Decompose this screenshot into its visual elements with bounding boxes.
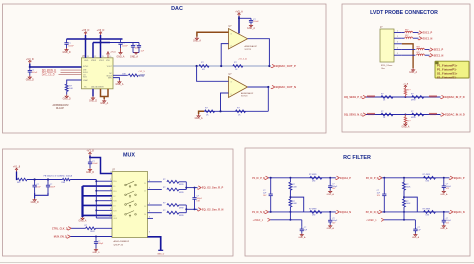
svg-text:R?: R? (163, 179, 165, 181)
svg-text:EQDAC_OUT_P: EQDAC_OUT_P (276, 64, 296, 68)
wire rc row1 (382, 177, 449, 179)
svg-text:49R9: 49R9 (179, 184, 184, 186)
svg-text:RLGCP: RLGCP (56, 108, 64, 110)
svg-text:GND: GND (84, 60, 89, 62)
svg-text:FB?: FB? (405, 35, 408, 37)
svg-text:EQ_G2_Sen_R_P: EQ_G2_Sen_R_P (202, 186, 224, 190)
svg-text:100pF: 100pF (98, 243, 104, 245)
svg-text:1: 1 (110, 172, 111, 174)
capacitor C1 decoupling left (66, 39, 68, 43)
svg-text:DNI: DNI (122, 74, 126, 76)
svg-text:+V2_5_A: +V2_5_A (238, 58, 247, 61)
wire row 1 to label (413, 32, 419, 34)
wire vref to cap (301, 220, 303, 226)
svg-text:100nF: 100nF (68, 46, 74, 48)
ground GND_A below cap P (443, 190, 445, 191)
svg-text:R?: R? (163, 210, 165, 212)
svg-text:100nF: 100nF (50, 187, 56, 189)
svg-text:DAC_CS_D: DAC_CS_D (42, 74, 55, 77)
MUX IC switch symbols (125, 181, 137, 188)
svg-text:EXC1_N: EXC1_N (423, 37, 433, 40)
ground GND_D below C10 (95, 249, 97, 250)
power port +V3_D at DAC pin4 (107, 53, 109, 58)
connector J1 pin 1 stub (394, 32, 402, 34)
svg-text:2: 2 (231, 94, 232, 96)
svg-text:R? 49R9: R? 49R9 (423, 174, 430, 176)
resistor rc series P (310, 176, 322, 179)
svg-text:AD5686RACPZ: AD5686RACPZ (53, 104, 70, 107)
svg-text:R?: R? (381, 94, 383, 96)
svg-text:8: 8 (149, 211, 150, 213)
net label EQ2A1_P output (449, 176, 453, 179)
svg-text:EQ1A1_P: EQ1A1_P (340, 177, 351, 180)
svg-text:R?: R? (381, 111, 383, 113)
svg-text:GND_A: GND_A (115, 83, 123, 86)
svg-text:3: 3 (231, 82, 232, 84)
svg-text:GND_D: GND_D (26, 80, 34, 82)
ground GND_A below cap P (329, 190, 331, 191)
svg-text:GND_A: GND_A (100, 102, 108, 105)
resistor rc series P (424, 176, 436, 179)
wire MUX thick input row 1 (83, 185, 113, 187)
power port +V1_8 above MUX IC (89, 153, 91, 155)
resistor series 1 (381, 96, 393, 99)
svg-text:EQDAC_OUT_N: EQDAC_OUT_N (276, 85, 296, 89)
wire MUX_EN to IC (70, 236, 112, 238)
net label EQDAC_OUT_P (271, 64, 275, 67)
svg-text:100nF: 100nF (253, 21, 259, 23)
wire MUX ground pin (148, 237, 161, 251)
svg-text:6: 6 (110, 199, 111, 201)
power port +5V_A above op-amp U2 (238, 14, 240, 16)
svg-text:GND_A: GND_A (247, 27, 255, 30)
svg-text:R? 49R9: R? 49R9 (423, 208, 430, 210)
MUX section border box (3, 149, 234, 256)
wire MUX thin input row 3 (96, 200, 112, 202)
connector J1 pin 2 stub (394, 37, 402, 39)
svg-text:R?: R? (163, 202, 165, 204)
svg-text:VREF: VREF (91, 60, 97, 62)
svg-text:100nF: 100nF (32, 72, 38, 74)
power port +5V_D above DAC IC (85, 33, 87, 35)
svg-text:GND_D: GND_D (86, 172, 94, 174)
ferrite bead on row right (429, 113, 437, 114)
ground GND_A below bus bar (82, 217, 84, 218)
power port +3V3_D left of DAC IC (29, 61, 31, 63)
svg-text:EXC1_P: EXC1_P (423, 32, 433, 35)
ground GND_A below vref cap (301, 234, 303, 235)
svg-text:EQ1A1_N: EQ1A1_N (340, 211, 351, 214)
svg-text:ADG1414BRUZ: ADG1414BRUZ (114, 240, 130, 243)
ground GND_A at op-amp U2 positive input (196, 37, 198, 39)
svg-text:+V3_D: +V3_D (110, 52, 116, 54)
wire op-amp U2 output (248, 39, 270, 66)
svg-text:+V3_D: +V3_D (26, 58, 34, 61)
wire brown link pins 3-4 below DAC IC (101, 89, 109, 97)
wire BPD pin to ground (113, 78, 119, 81)
svg-text:4: 4 (110, 189, 111, 191)
svg-text:GND_A: GND_A (79, 220, 87, 223)
ground GND_D below mux caps (34, 199, 36, 200)
capacitor output P to ground (329, 178, 331, 183)
svg-text:SYNC: SYNC (83, 66, 89, 68)
wire top rail 1 (67, 38, 123, 40)
svg-text:GND_D: GND_D (62, 52, 70, 54)
wire rail2 to C3 (110, 42, 139, 44)
svg-text:VDD: VDD (106, 60, 111, 62)
wire vref to cap (414, 220, 416, 226)
wire MUX thick input row 4 (83, 214, 113, 216)
wire resistor to join 2 (179, 189, 186, 191)
svg-text:49R9: 49R9 (179, 192, 184, 194)
svg-text:FB 600ohm @ 100MHz, 100mA: FB 600ohm @ 100MHz, 100mA (44, 174, 73, 177)
capacitor vref decouple (414, 226, 416, 229)
wire SPI_MOSI_D to pin (61, 69, 82, 71)
wire resistor to join 4 (179, 212, 186, 214)
wire join pair N (185, 205, 187, 213)
DAC IC U1 body (82, 58, 114, 89)
LVDT section border box (342, 4, 470, 132)
wire MUX thin vertical net (95, 180, 97, 219)
resistor R4 feedback divider (233, 65, 243, 68)
svg-text:7: 7 (110, 203, 111, 205)
svg-text:12: 12 (94, 56, 96, 58)
wire NC pin to resistor (113, 74, 128, 76)
wire P output (186, 187, 197, 189)
svg-text:R?: R? (411, 94, 413, 96)
capacitor differential across rows (383, 178, 385, 194)
svg-text:AD8615AUJZ: AD8615AUJZ (241, 92, 254, 95)
svg-text:D2: D2 (113, 196, 115, 198)
svg-text:5: 5 (397, 53, 398, 55)
svg-text:OQ_SEN1_P_D: OQ_SEN1_P_D (344, 95, 363, 99)
net label EXC1_P (418, 31, 422, 34)
wire op-amp U3 negative input (221, 93, 229, 111)
wire MUX grounded-common bus bar (81, 186, 83, 217)
svg-text:R?: R? (411, 111, 413, 113)
svg-text:SDO: SDO (83, 77, 88, 79)
ground GND_D below DAC IC (92, 96, 94, 98)
net label EXC1_N (418, 37, 422, 40)
svg-text:8: 8 (149, 188, 150, 190)
wire lvdt filter row (366, 96, 441, 98)
wire MUX output row 4 (148, 212, 162, 214)
svg-text:GND_A: GND_A (409, 71, 417, 74)
MUX IC U4 body (112, 172, 148, 238)
wire LDAC pin to pulldown (67, 80, 82, 84)
svg-text:FB?: FB? (405, 29, 408, 31)
svg-text:P1_IC_N_D: P1_IC_N_D (252, 211, 265, 214)
net label EQ1A1_P output (335, 176, 339, 179)
svg-text:MUX: MUX (123, 152, 135, 158)
capacitor C10 on MUX_EN (95, 237, 97, 242)
svg-text:49R9: 49R9 (179, 215, 184, 217)
svg-text:49R9: 49R9 (411, 117, 416, 119)
svg-text:GND_A: GND_A (401, 126, 409, 129)
capacitor output P to ground (443, 178, 445, 183)
wire MUX thin input row 2 (96, 190, 112, 192)
svg-text:+VREF_1: +VREF_1 (366, 219, 377, 222)
wire row 2 to label (413, 37, 419, 39)
wire top rail 2 (93, 42, 110, 44)
svg-text:8: 8 (149, 216, 150, 218)
resistor divider upper (289, 178, 291, 182)
resistor R86 mux supply (63, 178, 71, 180)
thermistor RT2 to ground (404, 115, 406, 117)
svg-text:SOT23: SOT23 (245, 49, 252, 51)
svg-text:13: 13 (87, 56, 89, 58)
wire row 5 to label (425, 54, 430, 56)
svg-text:D1: D1 (113, 186, 115, 188)
svg-text:R86: R86 (62, 182, 65, 184)
svg-text:10: 10 (109, 56, 111, 58)
resistor divider lower (403, 199, 406, 207)
svg-text:DAC AD5686R: DAC AD5686R (91, 86, 104, 89)
wire power to SYNC row (29, 64, 31, 67)
svg-text:LVDT PROBE CONNECTOR: LVDT PROBE CONNECTOR (370, 10, 438, 16)
ground GND_D below R1 (66, 95, 68, 97)
svg-text:RT?: RT? (407, 90, 411, 92)
svg-text:GND_D: GND_D (89, 100, 97, 102)
wire resistor to join 1 (179, 181, 186, 183)
svg-text:49R9: 49R9 (179, 207, 184, 209)
svg-text:GND_D: GND_D (157, 254, 165, 256)
resistor divider lower (289, 199, 292, 207)
svg-text:100nF: 100nF (92, 163, 98, 165)
svg-text:D3: D3 (144, 206, 146, 208)
wire supply branch to cap (239, 17, 251, 19)
resistor R10 mux output (167, 204, 179, 207)
wire bead to R86 (27, 179, 63, 181)
MUX right pin stub NC (148, 217, 154, 219)
resistor R11 mux output (167, 211, 179, 214)
svg-text:8: 8 (149, 180, 150, 182)
ferrite bead FB3 row 4 (417, 48, 425, 49)
svg-text:100nF: 100nF (122, 46, 128, 48)
svg-text:3: 3 (231, 34, 232, 36)
svg-text:8: 8 (110, 208, 111, 210)
wire caps to ground (35, 193, 48, 196)
ferrite bead FB2 row 2 (402, 37, 405, 39)
power port above thermistor (404, 86, 406, 88)
svg-text:R? 49R9: R? 49R9 (309, 174, 316, 176)
capacitor C6 op-amp U2 supply (250, 18, 252, 20)
svg-text:D2: D2 (144, 191, 146, 193)
ground GND_A at BPD pin (118, 80, 120, 82)
ferrite bead FB4 row 5 (417, 54, 425, 55)
ground GND_A below cap N (329, 225, 331, 226)
wire op-amp U2 negative input feedback (221, 44, 228, 66)
svg-text:49R9: 49R9 (411, 100, 416, 102)
wire GND pin down (92, 89, 94, 97)
wire MUX thick input row 3 (83, 204, 113, 206)
svg-text:100K: 100K (406, 186, 411, 188)
svg-text:100K: 100K (292, 203, 297, 205)
svg-text:DNI: DNI (426, 215, 430, 217)
svg-text:CTRL_CLK_D: CTRL_CLK_D (52, 227, 68, 230)
net label EQDAC_OUT_N (271, 85, 275, 88)
svg-text:Otw: Otw (381, 67, 385, 70)
svg-text:+V5_A: +V5_A (235, 10, 243, 13)
connector J1 pin 3 stub (394, 43, 402, 45)
wire power1 to VDD pin (85, 35, 87, 58)
wire row 4 (402, 49, 416, 51)
svg-text:EQ2A1_P: EQ2A1_P (454, 177, 465, 180)
svg-text:GND_A: GND_A (298, 236, 306, 239)
resistor R3 on VOUT line (199, 65, 209, 68)
resistor R7 ctrl series (86, 227, 96, 230)
net label EQ_G2_Sen_R_N (197, 208, 201, 211)
ferrite bead on row right (429, 96, 437, 97)
svg-text:100R: 100R (90, 231, 95, 233)
svg-text:SEC1_N: SEC1_N (434, 54, 444, 57)
svg-text:GND_A: GND_A (412, 236, 420, 239)
ground GND_D below C7 (89, 168, 91, 169)
wire brown stub to ground (103, 97, 105, 100)
ground GND_A below C3 C4 (132, 50, 134, 53)
resistor series 2 (412, 113, 424, 116)
svg-text:GND_A: GND_A (195, 117, 203, 120)
svg-text:GND_D: GND_D (63, 99, 71, 101)
svg-text:BTG_12mm: BTG_12mm (381, 65, 392, 67)
wire op-amp U3 feedback row (204, 110, 268, 112)
capacitor C8 mux bulk (34, 180, 36, 186)
wire rc row2 (269, 211, 336, 213)
DAC section border box (3, 4, 327, 133)
wire divider to vref row (289, 207, 291, 220)
svg-text:VOUT: VOUT (107, 66, 113, 68)
svg-text:D4: D4 (144, 214, 146, 216)
ground GND_A below vref cap (414, 234, 416, 235)
resistor R2 at vref pin (128, 74, 138, 77)
svg-text:P2_IC_P_D: P2_IC_P_D (366, 177, 379, 180)
ground GND_A lvdt return (412, 68, 414, 70)
resistor R8 mux output (167, 180, 179, 183)
wire far-left supply row (16, 172, 19, 180)
svg-text:2: 2 (110, 179, 111, 181)
ferrite bead on row left (367, 113, 375, 114)
svg-text:R? 49R9: R? 49R9 (309, 208, 316, 210)
wire DAC_CS_D to pin (59, 74, 82, 76)
svg-text:SOT23: SOT23 (241, 96, 248, 98)
wire brown to op-amp U2 positive input (197, 32, 229, 36)
capacitor C7 mux supply (89, 157, 91, 159)
svg-text:10: 10 (109, 216, 111, 218)
op-amp U3 triangle (229, 77, 248, 98)
svg-text:D3: D3 (113, 205, 115, 207)
net label EQDAC_IN_P_D (440, 95, 444, 98)
wire row 4 to label (425, 49, 430, 51)
ground GND_D below C5 (29, 76, 31, 78)
svg-text:GND_A: GND_A (117, 56, 125, 59)
capacitor vref decouple (301, 226, 303, 229)
wire MUX output row 2 (148, 189, 162, 191)
wire join pair P (185, 182, 187, 190)
capacitor C9 mux bulk (47, 180, 49, 186)
svg-text:MUX_EN_D: MUX_EN_D (54, 236, 67, 239)
wire MUX supply route (89, 156, 91, 158)
svg-text:QSOP-16: QSOP-16 (114, 244, 124, 246)
svg-text:P2_IC_N_D: P2_IC_N_D (366, 211, 379, 214)
wire SPI_SCLK_D to pin (61, 71, 82, 73)
wire MUX output row 3 (148, 204, 162, 206)
ground below thermistor (404, 123, 406, 124)
svg-text:DNI: DNI (312, 181, 316, 183)
wire MUX thin input row 1 (96, 180, 112, 182)
connector J1 pin 4 stub (394, 49, 402, 51)
svg-text:S1_Fixture/S1-: S1_Fixture/S1- (437, 75, 457, 79)
svg-text:+V5_D: +V5_D (82, 29, 90, 32)
ground GND_A below feedback row (198, 114, 200, 116)
connector J1 body (380, 29, 394, 62)
capacitor output N to ground (443, 212, 445, 218)
ferrite bead on row left (367, 96, 375, 97)
svg-text:GND_A: GND_A (440, 193, 448, 196)
wire MUX thin input row 5 (96, 217, 112, 219)
wire MUX thin input row 4 (96, 209, 112, 211)
svg-text:GND_A: GND_A (130, 56, 138, 59)
thermistor RT1 to positive rail (404, 95, 406, 97)
svg-text:2: 2 (231, 46, 232, 48)
svg-text:P1_IC_P_D: P1_IC_P_D (252, 177, 265, 180)
svg-text:BPD: BPD (108, 78, 113, 80)
ground GND_A below cap N (443, 225, 445, 226)
svg-text:DNI: DNI (312, 215, 316, 217)
ground GND_A below C6 (250, 24, 252, 25)
svg-text:5: 5 (110, 194, 111, 196)
svg-text:AD8615AUJZ: AD8615AUJZ (245, 45, 258, 48)
svg-text:RC FILTER: RC FILTER (343, 155, 371, 161)
wire R1 to ground (66, 91, 68, 94)
svg-text:+V1_8: +V1_8 (13, 166, 21, 169)
wire R86 to thin vertical (70, 179, 96, 181)
ferrite bead FB1 row 1 (402, 32, 405, 34)
svg-text:EQ_G2_Sen_R_N: EQ_G2_Sen_R_N (202, 207, 224, 211)
ground GND_D below C1 (66, 48, 68, 50)
ferrite bead FB5 mux supply (17, 178, 27, 181)
svg-text:100K: 100K (292, 186, 297, 188)
svg-text:GND_A: GND_A (440, 227, 448, 230)
RC FILTER section border box (245, 148, 470, 256)
wire MUX thick input row 2 (83, 195, 113, 197)
power port +V1_8 far left MUX (16, 169, 18, 171)
net label EQ2A1_N output (449, 210, 453, 213)
svg-text:EQDAC_IN_N_D: EQDAC_IN_N_D (445, 113, 465, 117)
svg-text:GND_A: GND_A (327, 227, 335, 230)
wire op-amp U3 output to feedback row (267, 87, 269, 111)
power port +3V3_D above DAC IC (100, 33, 102, 35)
wire rc row2 (382, 211, 449, 213)
svg-text:SEC1_P: SEC1_P (434, 49, 444, 52)
wire MUX output row 1 (148, 181, 162, 183)
svg-text:3: 3 (397, 42, 398, 44)
resistor divider upper (403, 178, 405, 182)
svg-text:R?: R? (85, 225, 87, 227)
wire brown at feedback row left (199, 111, 205, 114)
svg-text:8: 8 (149, 231, 150, 233)
wire op-amp U3 output (248, 86, 269, 88)
net label SEC1_N (429, 54, 433, 57)
wire divider mid tap (289, 190, 291, 199)
svg-text:EQDAC_IN_P_D: EQDAC_IN_P_D (445, 95, 465, 99)
net label EQ_G2_Sen_R_P (197, 186, 201, 189)
resistor R1 pulldown LDAC (65, 84, 68, 91)
wire rc row1 (269, 177, 336, 179)
wire power2 to VDD2 pin (100, 35, 102, 58)
wire vref row (384, 219, 416, 221)
capacitor C2 decoupling right (120, 39, 122, 43)
ground bar below MUX (158, 249, 163, 251)
